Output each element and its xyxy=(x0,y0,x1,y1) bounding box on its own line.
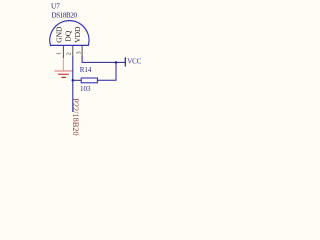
svg-text:1: 1 xyxy=(57,52,63,55)
power port VCC bar xyxy=(124,57,126,66)
ground bar 3 xyxy=(62,76,66,78)
junction DQ/R14 xyxy=(72,79,75,82)
svg-text:3: 3 xyxy=(76,51,82,54)
svg-text:DQ: DQ xyxy=(64,30,73,41)
svg-text:VCC: VCC xyxy=(127,58,142,66)
svg-text:DS18B20: DS18B20 xyxy=(52,11,78,19)
ground bar 2 xyxy=(58,73,69,75)
ground bar 1 xyxy=(54,70,72,72)
wire VDD vertical xyxy=(82,56,125,62)
ground stub wire xyxy=(62,58,64,71)
sensor U7 body xyxy=(50,21,89,46)
svg-text:2: 2 xyxy=(66,52,72,55)
pin 3 xyxy=(81,45,83,56)
junction VCC xyxy=(115,61,118,64)
pin 2 xyxy=(72,45,74,56)
svg-text:R14: R14 xyxy=(80,66,92,74)
svg-text:GND: GND xyxy=(55,26,64,43)
svg-text:P22/18B20: P22/18B20 xyxy=(71,98,80,135)
svg-text:U7: U7 xyxy=(51,3,60,11)
pin 1 xyxy=(62,45,64,58)
svg-text:103: 103 xyxy=(80,85,91,93)
wire pullup branch xyxy=(98,62,117,80)
resistor R14 box xyxy=(81,78,97,83)
wire R14 left terminal xyxy=(73,79,81,81)
wire DQ vertical xyxy=(72,56,74,112)
svg-text:VDD: VDD xyxy=(73,26,82,43)
